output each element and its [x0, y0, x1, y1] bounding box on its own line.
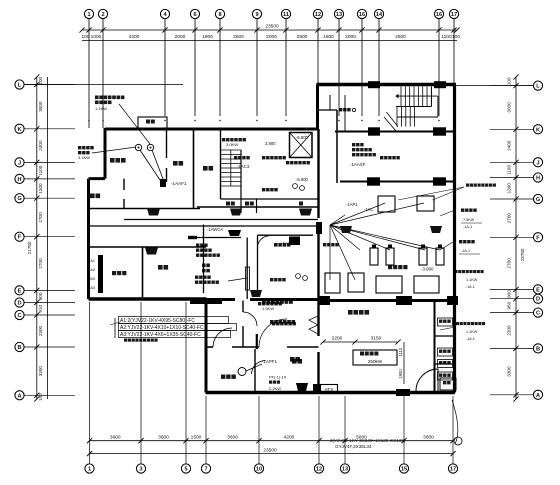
svg-text:2: 2	[101, 12, 104, 18]
svg-text:3150: 3150	[371, 336, 382, 342]
svg-text:1110: 1110	[398, 347, 403, 356]
svg-text:3.900: 3.900	[265, 141, 276, 146]
svg-text:16: 16	[436, 12, 442, 18]
svg-text:2300: 2300	[507, 325, 512, 336]
svg-text:17: 17	[451, 12, 457, 18]
svg-text:F: F	[18, 235, 22, 241]
svg-text:300: 300	[89, 277, 95, 281]
svg-text:1800: 1800	[202, 34, 213, 40]
svg-text:2700: 2700	[507, 213, 512, 224]
svg-text:E: E	[18, 288, 22, 294]
svg-text:900: 900	[507, 290, 512, 298]
svg-text:2400: 2400	[507, 140, 512, 151]
svg-text:A1:2(YJV22-1KV-4X95-SC80)-FC: A1:2(YJV22-1KV-4X95-SC80)-FC	[120, 318, 195, 324]
svg-text:3600: 3600	[423, 434, 434, 440]
svg-text:1: 1	[87, 12, 90, 18]
svg-text:2.2KW: 2.2KW	[269, 386, 281, 391]
svg-text:3000: 3000	[507, 102, 512, 113]
svg-text:A2: A2	[90, 268, 95, 272]
svg-text:7.5KW: 7.5KW	[463, 218, 475, 222]
svg-text:1.5KW: 1.5KW	[262, 306, 274, 311]
svg-text:-1A-1: -1A-1	[461, 249, 470, 253]
svg-text:250kW: 250kW	[368, 359, 383, 364]
svg-text:G: G	[17, 196, 21, 202]
svg-text:1.1KW: 1.1KW	[95, 106, 107, 111]
svg-text:PF(-1)-1#: PF(-1)-1#	[269, 375, 287, 380]
svg-text:2700: 2700	[38, 212, 43, 223]
svg-text:9: 9	[255, 12, 258, 18]
svg-text:2900: 2900	[297, 34, 308, 40]
svg-text:1300: 1300	[38, 183, 43, 194]
svg-text:-1APF1: -1APF1	[262, 359, 277, 364]
svg-text:11: 11	[283, 12, 289, 18]
svg-text:1: 1	[88, 467, 91, 473]
svg-text:23500: 23500	[263, 448, 277, 454]
svg-text:3600: 3600	[227, 434, 238, 440]
svg-text:3600: 3600	[158, 434, 169, 440]
svg-text:2(YJV22-1KV-3X240+1X120-SC125): 2(YJV22-1KV-3X240+1X120-SC125)	[330, 438, 406, 443]
svg-text:-1ACS: -1ACS	[281, 241, 294, 246]
svg-text:L: L	[536, 84, 540, 90]
svg-text:C: C	[536, 311, 540, 317]
svg-text:2000: 2000	[345, 34, 356, 40]
svg-text:3300: 3300	[507, 366, 512, 377]
svg-text:-1#-1: -1#-1	[466, 285, 475, 289]
svg-text:A1: A1	[90, 259, 95, 263]
svg-text:A2:YJV22-1KV-4X10+1X10-SC40-FC: A2:YJV22-1KV-4X10+1X10-SC40-FC	[120, 325, 204, 331]
svg-text:H: H	[536, 176, 540, 182]
svg-text:13: 13	[336, 12, 342, 18]
svg-text:J: J	[18, 160, 21, 166]
svg-text:-5.800: -5.800	[296, 135, 309, 140]
svg-text:3600: 3600	[110, 434, 121, 440]
svg-text:8: 8	[218, 12, 221, 18]
svg-text:5: 5	[184, 467, 187, 473]
svg-text:1100: 1100	[507, 165, 512, 175]
svg-text:12: 12	[316, 467, 322, 473]
svg-text:15: 15	[401, 467, 407, 473]
svg-text:D: D	[17, 301, 21, 307]
svg-text:4200: 4200	[284, 434, 295, 440]
svg-text:-5.800: -5.800	[296, 177, 309, 182]
svg-text:17: 17	[450, 467, 456, 473]
svg-text:ATS: ATS	[325, 387, 334, 392]
svg-text:23500: 23500	[265, 24, 279, 30]
svg-text:1.1KW: 1.1KW	[466, 330, 478, 334]
svg-text:F: F	[536, 235, 540, 241]
svg-text:B: B	[17, 345, 21, 351]
svg-text:D: D	[536, 297, 540, 303]
svg-text:C: C	[17, 313, 21, 319]
svg-text:A: A	[536, 393, 540, 399]
svg-text:10: 10	[256, 467, 262, 473]
svg-text:2400: 2400	[38, 140, 43, 151]
svg-text:1900: 1900	[398, 369, 403, 379]
svg-text:2000: 2000	[175, 34, 186, 40]
svg-text:-1AWCA: -1AWCA	[207, 227, 223, 232]
svg-text:1800: 1800	[323, 34, 334, 40]
svg-text:A3: A3	[90, 286, 95, 290]
svg-text:12: 12	[315, 12, 321, 18]
svg-text:3: 3	[139, 467, 142, 473]
svg-text:L: L	[18, 83, 22, 89]
svg-text:100: 100	[507, 77, 512, 85]
svg-text:3000: 3000	[38, 101, 43, 112]
svg-text:2300: 2300	[38, 325, 43, 336]
svg-text:23780: 23780	[520, 248, 525, 261]
svg-text:-3.900: -3.900	[421, 267, 434, 272]
svg-text:1100: 1100	[38, 165, 43, 175]
svg-text:-1AAF1: -1AAF1	[171, 181, 187, 186]
svg-text:-1AP1: -1AP1	[346, 202, 358, 207]
svg-text:4500: 4500	[395, 34, 406, 40]
svg-text:-1A-1: -1A-1	[463, 225, 472, 229]
svg-text:16: 16	[359, 12, 365, 18]
svg-text:4200: 4200	[129, 34, 140, 40]
svg-text:2000: 2000	[266, 34, 277, 40]
svg-text:1500: 1500	[191, 434, 202, 440]
svg-text:14: 14	[376, 12, 383, 18]
svg-text:1300: 1300	[507, 183, 512, 194]
svg-text:100: 100	[38, 76, 43, 84]
svg-text:21780: 21780	[27, 241, 32, 254]
svg-text:GYJV4F,3X35L34: GYJV4F,3X35L34	[335, 444, 372, 449]
svg-text:950: 950	[507, 301, 512, 309]
svg-text:J: J	[536, 160, 539, 166]
svg-text:K: K	[17, 127, 21, 133]
svg-text:7: 7	[204, 467, 207, 473]
svg-text:3300: 3300	[38, 366, 43, 377]
svg-text:100: 100	[81, 34, 89, 40]
svg-text:900: 900	[38, 292, 43, 300]
svg-text:-1AAXF: -1AAXF	[350, 162, 366, 167]
svg-text:6: 6	[193, 12, 196, 18]
svg-text:-1#-1: -1#-1	[466, 337, 475, 341]
svg-text:910: 910	[38, 304, 43, 312]
svg-text:3.0KW: 3.0KW	[226, 142, 238, 147]
svg-text:-1AC3: -1AC3	[237, 164, 250, 169]
svg-text:H: H	[17, 177, 21, 183]
svg-text:K: K	[536, 127, 540, 133]
svg-text:1100: 1100	[441, 34, 452, 40]
svg-text:100: 100	[38, 393, 43, 401]
svg-text:1.1KW: 1.1KW	[466, 278, 478, 282]
svg-text:2200: 2200	[332, 336, 343, 342]
svg-text:A3:YJV22-1KV-4X6+1X35-SC40-FC: A3:YJV22-1KV-4X6+1X35-SC40-FC	[120, 332, 201, 338]
svg-text:2600: 2600	[233, 34, 244, 40]
svg-text:13: 13	[342, 467, 348, 473]
svg-text:G: G	[536, 197, 540, 203]
svg-text:3.1KW: 3.1KW	[78, 155, 90, 160]
svg-text:A: A	[17, 393, 21, 399]
svg-text:E: E	[536, 287, 540, 293]
svg-text:2700: 2700	[507, 258, 512, 269]
svg-text:B: B	[536, 346, 540, 352]
svg-text:1000: 1000	[91, 34, 102, 40]
svg-text:2700: 2700	[38, 258, 43, 269]
svg-text:100: 100	[452, 34, 460, 40]
